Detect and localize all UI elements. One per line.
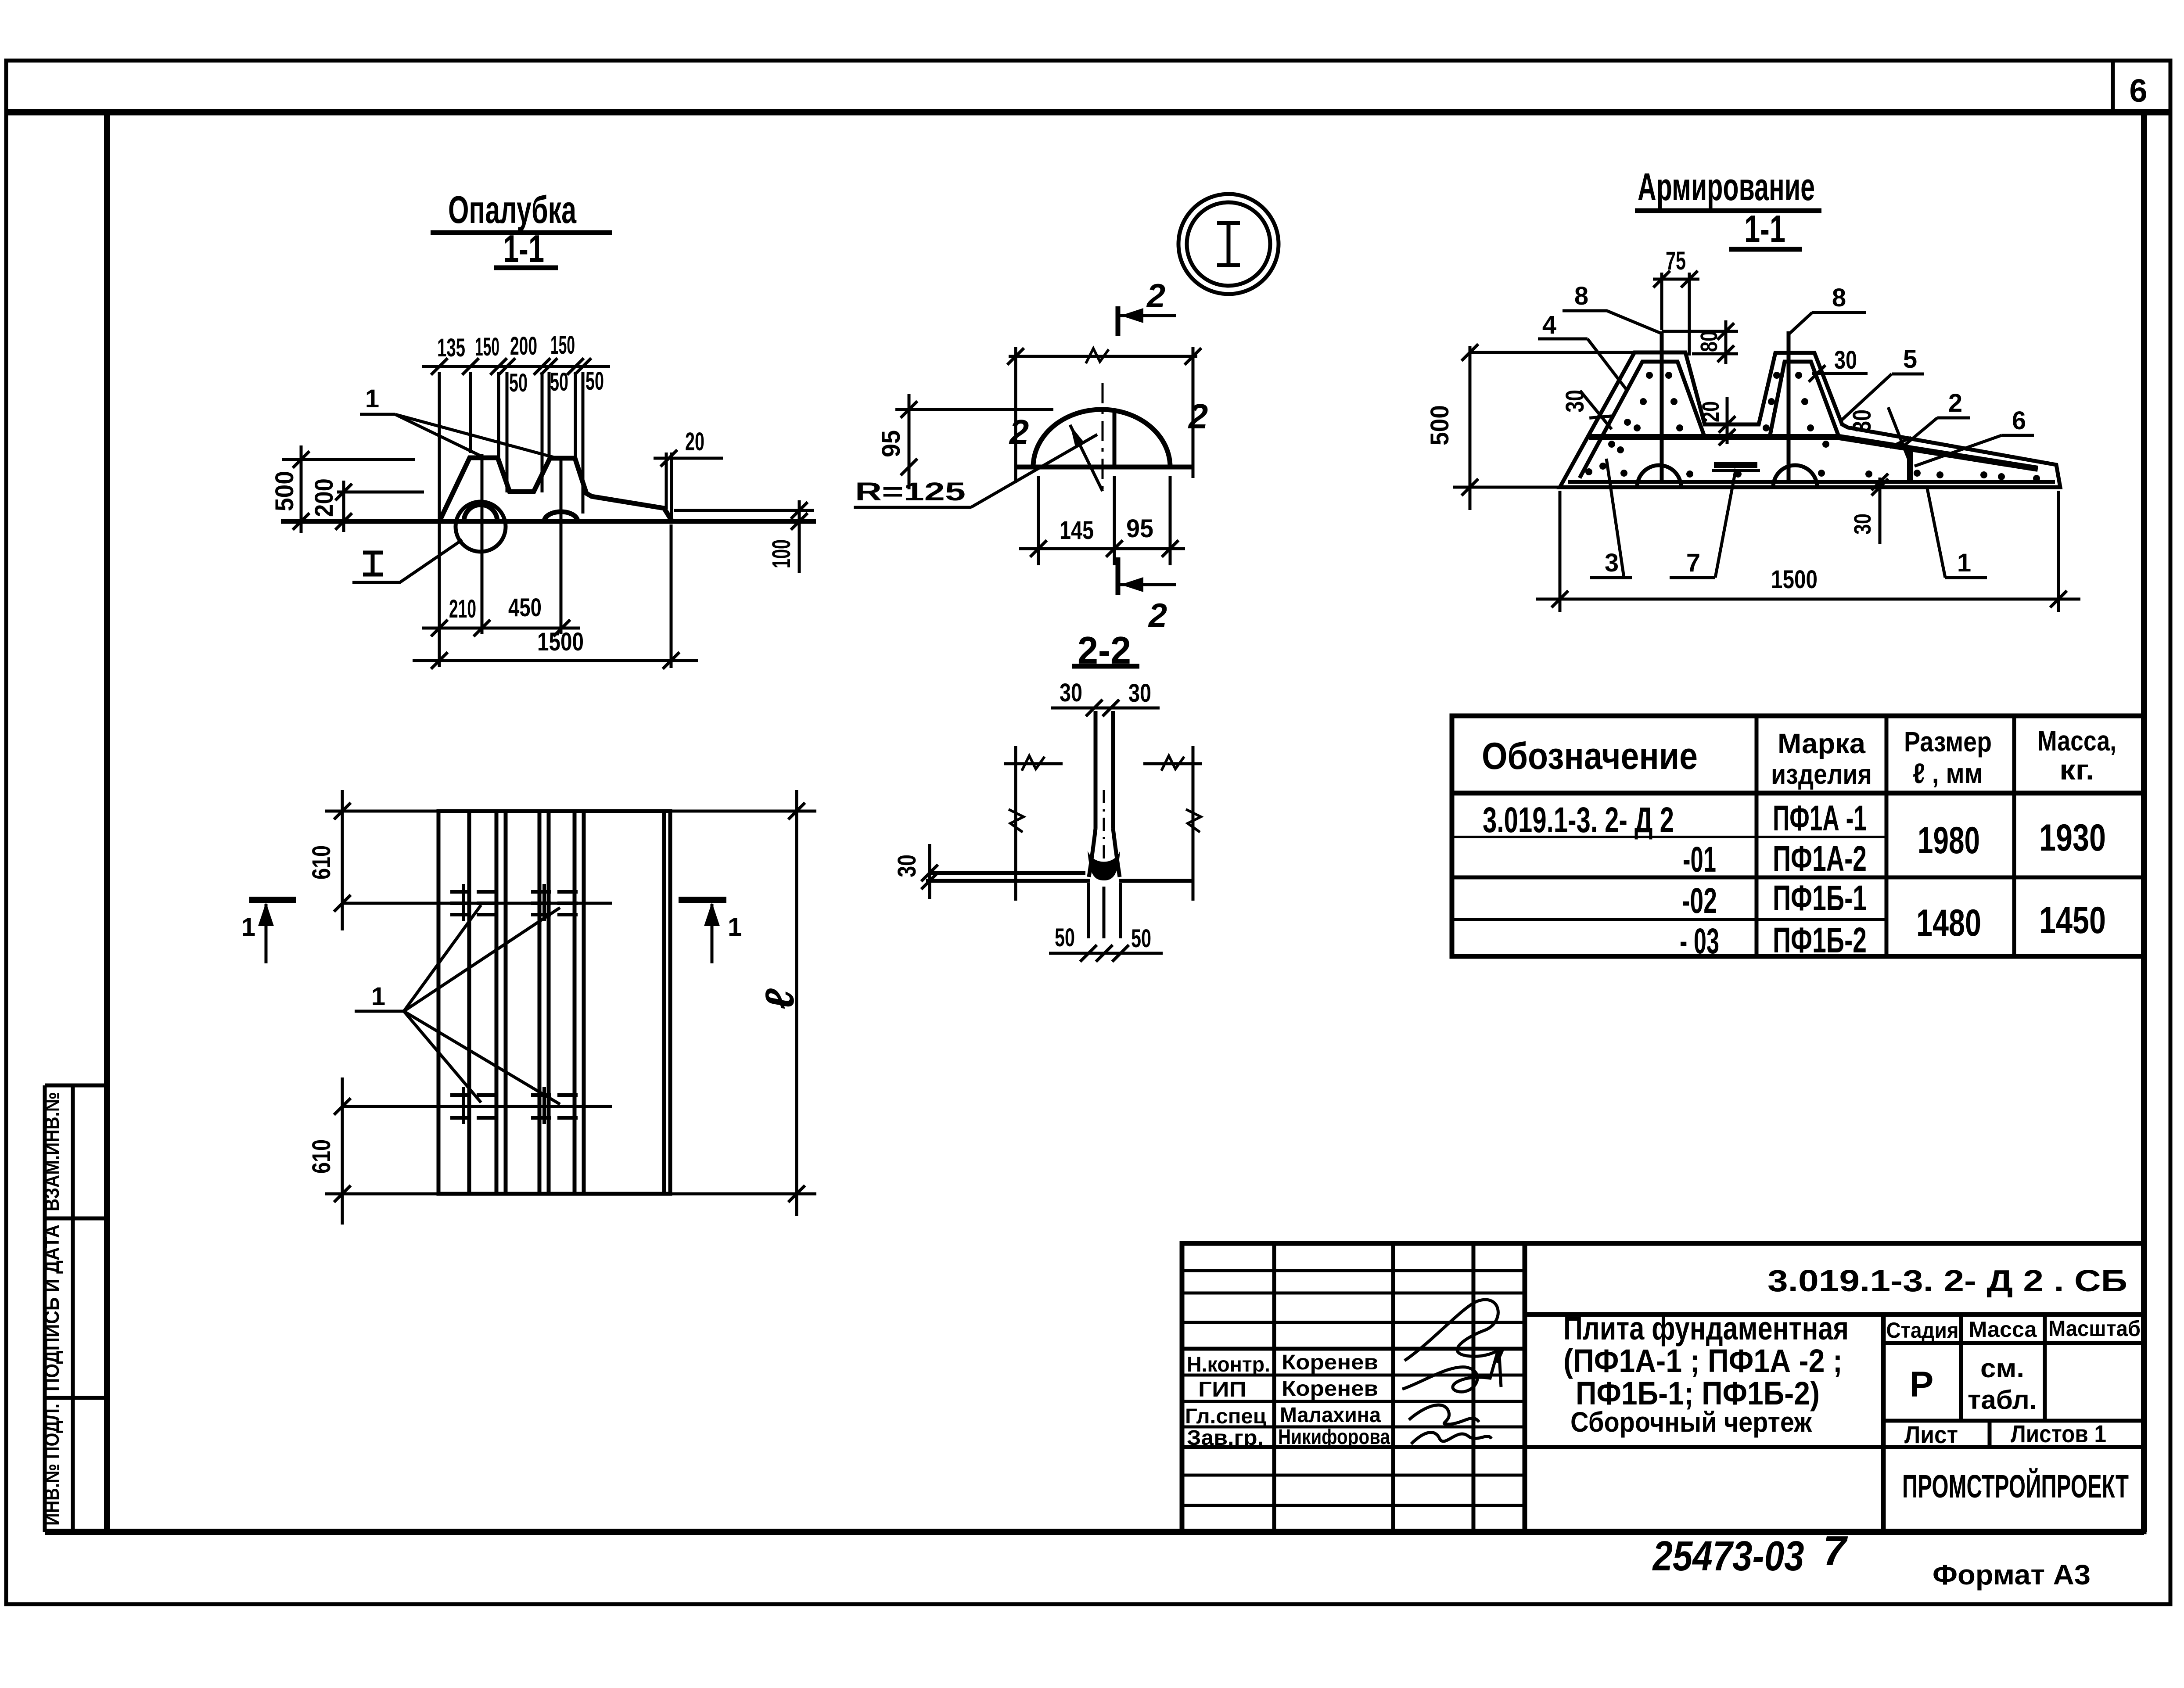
svg-text:см.: см.	[1980, 1354, 2024, 1383]
svg-text:1930: 1930	[2039, 817, 2106, 859]
svg-text:Опалубка: Опалубка	[448, 188, 577, 231]
svg-text:Никифорова: Никифорова	[1278, 1426, 1390, 1449]
svg-text:3.019.1-3. 2- Д 2: 3.019.1-3. 2- Д 2	[1483, 800, 1674, 840]
svg-text:Размер: Размер	[1904, 726, 1992, 758]
svg-text:ℓ , мм: ℓ , мм	[1913, 758, 1983, 789]
svg-text:Коренев: Коренев	[1282, 1351, 1378, 1374]
svg-text:Р: Р	[1910, 1365, 1934, 1404]
svg-text:450: 450	[508, 593, 542, 622]
svg-text:ПФ1Б-1: ПФ1Б-1	[1773, 878, 1867, 918]
svg-text:Марка: Марка	[1778, 728, 1865, 759]
dim 30 hump2 right	[1812, 372, 1868, 375]
svg-text:6: 6	[2129, 72, 2147, 109]
svg-text:ПОДПИСЬ И ДАТА: ПОДПИСЬ И ДАТА	[40, 1225, 63, 1391]
dim 610 upper	[341, 790, 344, 930]
rib walls	[1094, 711, 1098, 829]
svg-text:Масштаб: Масштаб	[2048, 1316, 2141, 1341]
svg-text:ПФ1А -1: ПФ1А -1	[1773, 798, 1867, 838]
svg-text:30: 30	[893, 855, 921, 877]
section 2 marker top	[1116, 306, 1121, 336]
svg-text:-01: -01	[1683, 840, 1716, 880]
svg-text:50: 50	[1131, 924, 1151, 953]
svg-text:80: 80	[1696, 331, 1722, 352]
formwork profile	[439, 458, 672, 521]
svg-text:200: 200	[310, 478, 338, 517]
svg-text:3.019.1-3. 2- Д 2 . СБ: 3.019.1-3. 2- Д 2 . СБ	[1767, 1264, 2127, 1298]
stadia columns	[1881, 1314, 1886, 1532]
break line vertical left	[1014, 746, 1017, 901]
svg-text:50: 50	[1055, 923, 1075, 952]
detail label I	[363, 553, 383, 575]
svg-text:30: 30	[1561, 390, 1589, 413]
svg-text:75: 75	[1666, 247, 1686, 275]
svg-text:500: 500	[1426, 405, 1454, 445]
svg-text:1450: 1450	[2039, 899, 2106, 941]
groove dome 2	[1773, 465, 1817, 487]
svg-text:1500: 1500	[537, 628, 584, 656]
svg-text:30: 30	[1848, 409, 1876, 432]
plan outline	[438, 811, 670, 1194]
svg-text:135: 135	[437, 334, 465, 362]
dim 1500 line	[413, 659, 698, 662]
weld crescent fill	[1088, 851, 1120, 880]
bottom bar item 1	[1568, 480, 2055, 484]
section line 2 left	[1014, 347, 1017, 483]
dim 80	[1662, 330, 1738, 333]
reinforced profile outline	[1560, 352, 2060, 487]
svg-text:2: 2	[1188, 397, 1208, 436]
svg-text:30: 30	[1060, 679, 1082, 707]
inner drawing frame bottom	[45, 1529, 2144, 1535]
shelf lines left	[930, 871, 1085, 875]
svg-text:2: 2	[1146, 277, 1165, 315]
svg-text:95: 95	[877, 430, 905, 457]
svg-text:100: 100	[767, 539, 796, 568]
staff columns	[1272, 1243, 1276, 1532]
svg-text:ПФ1Б-2: ПФ1Б-2	[1773, 920, 1867, 960]
plan rib lines	[467, 811, 471, 1194]
svg-text:R=125: R=125	[855, 478, 966, 506]
svg-text:2: 2	[1948, 389, 1962, 417]
detail I leader	[352, 540, 462, 582]
svg-text:Коренев: Коренев	[1282, 1377, 1378, 1401]
svg-text:Стадия: Стадия	[1886, 1318, 1959, 1343]
inner cage hump 1	[1580, 362, 1705, 478]
svg-text:2: 2	[1009, 413, 1029, 452]
circled marker I	[1178, 194, 1279, 294]
svg-text:Н.контр.: Н.контр.	[1187, 1353, 1270, 1376]
svg-text:1: 1	[241, 913, 255, 941]
svg-text:20: 20	[1698, 401, 1724, 422]
svg-text:6: 6	[2012, 406, 2026, 435]
dim 95 vertical (height)	[908, 394, 911, 489]
dim 100	[798, 500, 801, 573]
svg-text:1980: 1980	[1918, 819, 1980, 862]
svg-text:2: 2	[1148, 597, 1167, 634]
svg-text:210: 210	[449, 595, 476, 623]
svg-text:25473-03: 25473-03	[1652, 1533, 1804, 1580]
svg-text:50: 50	[550, 368, 568, 396]
dim 50|50 bottom	[1049, 952, 1163, 955]
groove dome 1	[1637, 465, 1681, 487]
svg-text:Масса: Масса	[1969, 1317, 2037, 1342]
svg-text:Лист: Лист	[1904, 1421, 1958, 1448]
diagonal bar item 2	[1839, 437, 2038, 469]
bar item 7	[1714, 462, 1757, 468]
svg-text:Масса,: Масса,	[2037, 725, 2116, 757]
svg-text:-02: -02	[1682, 881, 1717, 921]
svg-text:610: 610	[307, 845, 336, 880]
groove dome 2	[544, 512, 578, 521]
inner drawing frame right	[2141, 112, 2147, 1532]
top strip line (inner frame top, full width)	[6, 109, 2170, 115]
dim 610 lower	[341, 1077, 344, 1225]
svg-text:1500: 1500	[1771, 565, 1818, 594]
designation cell line	[1525, 1312, 2144, 1317]
section marker 1 left	[249, 897, 296, 903]
svg-text:145: 145	[1060, 516, 1094, 545]
vertical bar item 8 (left)	[1660, 331, 1664, 482]
svg-text:50: 50	[509, 369, 528, 397]
svg-text:200: 200	[510, 332, 537, 360]
detail top dim line with break	[1009, 355, 1197, 358]
ground line	[281, 519, 816, 524]
detail baseline	[1017, 465, 1194, 470]
hump centerline 2	[560, 456, 563, 634]
svg-text:ГИП: ГИП	[1198, 1378, 1246, 1401]
tie line upper	[342, 902, 612, 905]
dim 210/450 line	[422, 627, 580, 630]
svg-text:95: 95	[1126, 514, 1153, 543]
svg-text:Обозначение: Обозначение	[1482, 735, 1698, 777]
left attribute boxes	[45, 1085, 107, 1532]
svg-text:30: 30	[1128, 679, 1151, 708]
top dim extension lines	[438, 372, 441, 667]
dim 20 (right top)	[654, 457, 723, 460]
svg-text:5: 5	[1903, 345, 1917, 374]
break line horizontal right	[1143, 762, 1202, 765]
break line vertical right	[1192, 746, 1195, 901]
inner drawing frame left	[104, 112, 110, 1532]
svg-text:кг.: кг.	[2059, 754, 2094, 786]
dim l (script ell) right	[670, 810, 816, 813]
hump centerline 1	[481, 454, 484, 634]
svg-text:500: 500	[270, 471, 299, 511]
svg-text:1-1: 1-1	[503, 227, 544, 270]
svg-text:1: 1	[365, 384, 379, 413]
dim 30|30 top	[1051, 707, 1160, 710]
svg-text:7: 7	[1823, 1527, 1848, 1574]
svg-text:30: 30	[1850, 514, 1876, 535]
section marker 1 right	[679, 897, 726, 903]
dim 1500	[1536, 598, 2080, 601]
pin item 6	[1907, 449, 1913, 483]
svg-text:1: 1	[1957, 549, 1971, 577]
title 1-1 underline	[494, 266, 558, 270]
svg-text:1: 1	[371, 982, 385, 1011]
vertical bar item 8 (right)	[1787, 331, 1791, 482]
offset line 95	[1113, 412, 1117, 467]
title underline	[431, 230, 612, 235]
semicircle R=125	[1033, 409, 1170, 467]
svg-text:1480: 1480	[1916, 902, 1981, 944]
svg-text:Сборочный чертеж: Сборочный чертеж	[1570, 1406, 1812, 1438]
shelf lines right	[1119, 879, 1192, 883]
dim 30 bottom cover	[1879, 478, 1882, 544]
svg-text:ИНВ.№ ПОДЛ.: ИНВ.№ ПОДЛ.	[40, 1404, 63, 1526]
top dim line	[422, 365, 610, 368]
svg-text:150: 150	[550, 331, 575, 359]
rib flare	[1089, 829, 1096, 877]
svg-text:- 03: - 03	[1680, 921, 1719, 961]
callout 1 leaders	[395, 414, 483, 457]
floor edge line right	[674, 509, 814, 512]
top strip divider for sheet-number cell	[2111, 61, 2115, 112]
svg-text:ВЗАМ.ИНВ.№: ВЗАМ.ИНВ.№	[40, 1092, 63, 1211]
svg-text:610: 610	[307, 1139, 336, 1174]
svg-text:(ПФ1А-1 ; ПФ1А -2 ;: (ПФ1А-1 ; ПФ1А -2 ;	[1563, 1343, 1843, 1379]
dim 75	[1653, 278, 1699, 281]
svg-text:3: 3	[1605, 549, 1619, 577]
svg-text:изделия: изделия	[1771, 758, 1872, 790]
centerline dash-dot	[1102, 383, 1104, 491]
svg-text:8: 8	[1574, 282, 1588, 310]
dim 500 line	[300, 445, 303, 533]
inner cage hump 2	[1770, 362, 1839, 437]
dim 145 / 95 bottom	[1037, 476, 1040, 565]
plan callout leaders	[404, 905, 481, 1011]
svg-text:50: 50	[586, 367, 604, 395]
rebar dots	[1585, 372, 2040, 482]
groove dome 1	[464, 505, 497, 521]
svg-text:7: 7	[1686, 549, 1700, 577]
section line 2 right	[1192, 347, 1195, 478]
svg-text:Малахина: Малахина	[1280, 1404, 1381, 1427]
svg-text:Формат А3: Формат А3	[1933, 1559, 2091, 1591]
detail I circle	[456, 502, 506, 552]
svg-text:табл.: табл.	[1968, 1385, 2037, 1415]
staff rows	[1182, 1269, 1525, 1272]
dim 20	[1726, 397, 1729, 444]
svg-text:8: 8	[1832, 284, 1846, 312]
svg-text:20: 20	[685, 427, 704, 456]
svg-text:Листов 1: Листов 1	[2011, 1420, 2106, 1447]
svg-text:Плита фундаментная: Плита фундаментная	[1563, 1310, 1849, 1347]
svg-text:Зав.гр.: Зав.гр.	[1187, 1426, 1264, 1450]
svg-text:ℓ: ℓ	[758, 988, 802, 1009]
tie clusters	[450, 884, 497, 921]
tie line lower	[342, 1105, 612, 1108]
dim 200 line	[342, 481, 345, 532]
svg-text:150: 150	[475, 333, 499, 361]
svg-text:1-1: 1-1	[1744, 207, 1785, 251]
stem lines below base	[1087, 883, 1090, 938]
dim 500 left	[1469, 346, 1472, 510]
ground line	[1453, 486, 1560, 489]
svg-text:1: 1	[728, 913, 742, 941]
svg-text:30: 30	[1834, 346, 1857, 374]
top dim ticks	[431, 358, 448, 375]
svg-text:ПФ1А-2: ПФ1А-2	[1773, 839, 1867, 879]
section 2 marker bottom	[1116, 557, 1121, 595]
svg-text:4: 4	[1542, 311, 1556, 339]
break line horizontal left	[1004, 762, 1063, 765]
svg-text:ПРОМСТРОЙПРОЕКТ: ПРОМСТРОЙПРОЕКТ	[1902, 1468, 2129, 1505]
main horizontal bar item 5	[1589, 434, 1839, 440]
svg-text:Армирование: Армирование	[1638, 165, 1815, 208]
svg-text:Гл.спец: Гл.спец	[1185, 1405, 1266, 1428]
dim 30 left of base	[928, 844, 931, 899]
signatures	[1405, 1300, 1503, 1363]
